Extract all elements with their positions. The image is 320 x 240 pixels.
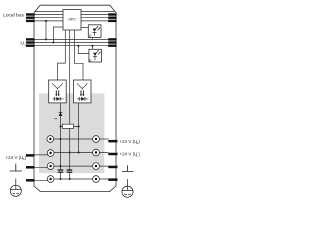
- right contact bar UA: [108, 140, 117, 143]
- wire: OPC pin2 down to +24V UL rail: [69, 30, 71, 153]
- left ground symbol: [10, 164, 22, 171]
- wire: vertical B from UL24 rail down to FE rail: [69, 153, 71, 180]
- tiny mark: [54, 118, 55, 119]
- left contact bar US: [26, 154, 35, 157]
- wire: UL rail3 tap to LED 2 box left: [78, 46, 89, 54]
- local bus line 3: [35, 17, 116, 19]
- terminal circle 3L: [47, 163, 54, 170]
- LED D box: [88, 25, 101, 38]
- node dot: [45, 20, 47, 22]
- left UL contact bar 1: [26, 38, 35, 40]
- wire: OPC pin3 to right optocoupler: [75, 30, 84, 80]
- right contact bar GND: [108, 166, 117, 169]
- capacitor C1 plates: [58, 170, 64, 172]
- left bus contact bar 1: [26, 13, 35, 15]
- wire: OPC right pin to LED D box: [81, 26, 88, 28]
- node dot: [60, 165, 62, 167]
- node dot: [52, 42, 54, 44]
- node dot: [60, 125, 62, 127]
- node dot: [92, 45, 94, 47]
- svg-text:+24 V (U: +24 V (U: [6, 155, 24, 160]
- node dot: [69, 178, 71, 180]
- wire: bus line4 tap down to UL rail1: [45, 21, 47, 40]
- terminal circle 3R: [93, 163, 100, 170]
- svg-text:+24 V (U: +24 V (U: [120, 152, 138, 157]
- UL rail 3: [35, 45, 109, 47]
- right UL contact bar 2: [108, 41, 116, 43]
- svg-text:E: E: [89, 58, 91, 62]
- right contact bar FE: [108, 178, 117, 181]
- wire: vertical C from opto U2 down to +24V UL rail: [78, 103, 80, 153]
- node dot: [69, 152, 71, 154]
- left contact bar FE: [26, 179, 35, 182]
- terminal circle 4L: [47, 176, 54, 183]
- terminal circle 2R: [93, 149, 100, 156]
- terminal circle 1L: [47, 136, 54, 143]
- left UL contact bar 2: [26, 41, 35, 43]
- optocoupler U2: [74, 80, 92, 103]
- rail UL +24V: [35, 153, 109, 155]
- UL rail 2: [35, 42, 109, 44]
- capacitor C2 plates: [67, 170, 73, 172]
- shaded field-side area: [39, 93, 104, 173]
- optocoupler U1: [49, 80, 66, 103]
- terminal circle 1R: [93, 136, 100, 143]
- rail GND: [35, 166, 109, 167]
- wire: OPC left pin to UL rail2: [53, 27, 63, 43]
- right bus contact bar 2: [108, 17, 116, 19]
- right contact bar UL: [108, 153, 117, 156]
- svg-text:+24 V (U: +24 V (U: [120, 139, 138, 144]
- right bus contact bar 3: [108, 20, 116, 22]
- rail FE: [35, 179, 109, 180]
- right bus contact bar 1: [108, 13, 116, 15]
- wire: UL rail3 to LED 2 box: [92, 46, 94, 50]
- terminal circle 4R: [93, 176, 100, 183]
- left bus contact bar 3: [26, 20, 35, 22]
- node dot: [45, 38, 47, 40]
- wire: resistor leads: [61, 125, 79, 127]
- protocol chip OPC: [63, 10, 81, 31]
- module housing outline: [34, 5, 116, 191]
- left contact bar GND: [26, 166, 35, 169]
- UL rail 1: [35, 38, 109, 40]
- right FE earth symbol: [122, 179, 133, 197]
- rail UA +24V: [54, 138, 109, 140]
- right UL contact bar 1: [108, 38, 116, 40]
- right ground symbol: [122, 165, 133, 171]
- svg-text:Local bus: Local bus: [3, 12, 24, 18]
- node dot: [60, 178, 62, 180]
- svg-text:OPC: OPC: [68, 18, 76, 22]
- wire: vertical A from opto U1 down to FE rail: [60, 103, 62, 179]
- LED 2 box: [89, 49, 102, 62]
- local bus line 4: [35, 20, 116, 22]
- wire: OPC pin1 to left optocoupler: [58, 30, 66, 80]
- local bus line 1: [35, 10, 116, 12]
- node dot: [78, 125, 80, 127]
- resistor R1: [63, 124, 74, 128]
- node dot: [77, 45, 79, 47]
- terminal circle 2L: [47, 150, 54, 157]
- left UL contact bar 3: [26, 45, 35, 47]
- left FE earth symbol: [10, 178, 21, 196]
- node dot: [78, 152, 80, 154]
- wire: LED D box to UL rail1: [92, 38, 94, 40]
- right UL contact bar 3: [108, 45, 116, 47]
- local bus line 2: [35, 14, 116, 16]
- diode on vertical A: [59, 112, 63, 116]
- node dot: [60, 138, 62, 140]
- left bus contact bar 2: [26, 17, 35, 19]
